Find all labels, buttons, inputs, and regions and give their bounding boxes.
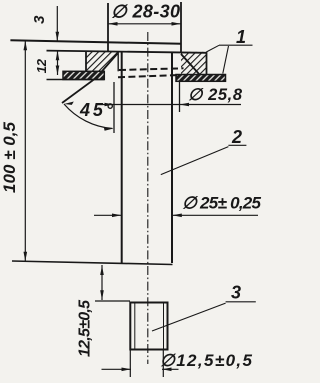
flange bottom line left — [47, 79, 105, 81]
flange right cone diagonal — [181, 54, 200, 75]
svg-text:12,5±0,5: 12,5±0,5 — [77, 299, 94, 357]
label 3 underline — [226, 301, 256, 303]
hidden line upper — [119, 68, 184, 70]
flange right outer edge — [206, 52, 208, 75]
pin inner left line — [134, 303, 136, 349]
extension line left for dia 25.8 — [113, 82, 115, 133]
flange left block inner edge — [117, 52, 119, 72]
flange top line — [47, 51, 207, 53]
dimension dia 25.8 line — [97, 104, 242, 106]
flange left outer edge — [85, 52, 87, 72]
pin top extension line — [95, 300, 130, 302]
svg-text:45°: 45° — [79, 100, 114, 120]
pin outline — [130, 303, 167, 350]
pin extension right — [162, 350, 164, 378]
shaft bottom line — [12, 261, 173, 265]
svg-text:2: 2 — [231, 127, 242, 147]
dimension dia 25 line right — [172, 214, 258, 216]
pin inner right line — [163, 303, 165, 349]
flange left lip — [63, 71, 104, 79]
leader 2 — [161, 147, 229, 175]
svg-text:∅12,5±0,5: ∅12,5±0,5 — [160, 351, 253, 370]
label 2 underline — [228, 144, 246, 146]
dimension 3 arrow — [56, 6, 58, 41]
leader 3 — [152, 303, 226, 331]
centerline — [147, 32, 149, 364]
extension line right for dia 25.8 — [179, 82, 181, 112]
label 1 underline — [219, 44, 253, 46]
svg-text:3: 3 — [231, 283, 241, 303]
svg-text:1: 1 — [236, 27, 246, 47]
svg-text:∅ 25± 0,25: ∅ 25± 0,25 — [182, 194, 262, 213]
svg-text:100 ± 0,5: 100 ± 0,5 — [0, 121, 19, 193]
head top line — [10, 40, 181, 44]
shaft left edge — [121, 52, 123, 264]
shaft right edge — [171, 52, 173, 264]
45 degree arc — [64, 104, 113, 129]
dimension dia 28-30 line — [108, 23, 181, 25]
flange right block hatch — [181, 52, 207, 75]
head left edge — [107, 3, 109, 52]
svg-text:∅ 28-30: ∅ 28-30 — [111, 2, 180, 22]
head right edge — [180, 2, 182, 52]
dimension dia 25 line left — [94, 214, 122, 216]
leader 1b — [223, 46, 229, 74]
hidden line lower — [118, 75, 180, 77]
dimension dia 12,5 line right — [162, 368, 179, 370]
flange left block hatch — [86, 52, 118, 72]
dimension dia 12,5 line left — [102, 368, 132, 370]
leader 1a — [206, 45, 219, 52]
45 degree cone line — [62, 54, 118, 104]
dimension 12 — [57, 51, 59, 75]
dimension 100 line — [24, 41, 26, 262]
pin extension left — [129, 350, 131, 378]
svg-text:3: 3 — [31, 15, 48, 24]
svg-text:∅ 25,8: ∅ 25,8 — [188, 86, 243, 104]
svg-text:12: 12 — [34, 58, 49, 73]
flange right lip — [176, 75, 226, 82]
dimension 12,5 gap line — [101, 265, 103, 300]
